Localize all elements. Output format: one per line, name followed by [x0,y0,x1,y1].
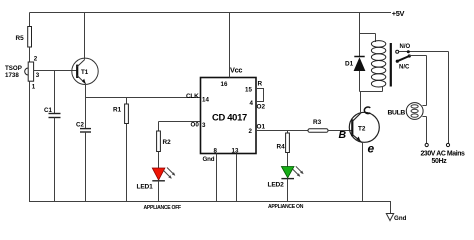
wire O0 pin3 to R2 [159,121,201,123]
svg-text:16: 16 [221,81,228,88]
wire bottom rail to ground [390,201,392,214]
resistor R4 [286,133,290,153]
resistor R1 [125,104,129,124]
svg-text:C1: C1 [44,107,52,114]
wire R4 branch [287,131,289,134]
wire TSOP pin3 output to T1 base [34,70,78,72]
svg-text:15: 15 [245,87,252,94]
wire R2 to LED1 [158,152,160,169]
wire N/O line down to mains terminal right [448,52,450,144]
wire R1 to bottom rail [126,124,128,203]
ground symbol [386,214,393,221]
transistor T2 [349,112,379,142]
resistor R2 [157,131,161,152]
relay core [390,43,392,87]
svg-text:O0: O0 [191,122,200,129]
wire T1 emitter down [85,84,87,129]
wire top junction D1/coil [360,33,376,35]
svg-text:LED2: LED2 [268,182,285,189]
svg-text:Gnd: Gnd [203,156,215,163]
wire O1 pin2 to R3 and T2 base [256,130,308,132]
svg-text:R1: R1 [113,107,122,114]
capacitor C2 [80,128,91,130]
relay coil [375,34,377,43]
LED2 green [281,167,294,178]
wire D1 branch top [359,34,361,57]
svg-text:T2: T2 [358,126,366,133]
wire T2 emitter to bottom rail [362,143,364,202]
IC U1 CD4017 box [201,78,257,154]
transistor T1 [72,58,98,84]
svg-text:R5: R5 [16,35,25,42]
TSOP lens bump [25,68,29,75]
svg-text:13: 13 [232,148,239,155]
svg-text:14: 14 [202,97,209,104]
wire R1 branch [126,98,128,105]
label c script (collector curl) [364,107,370,114]
wire bottom rail [30,201,391,203]
svg-text:N/C: N/C [399,65,410,71]
svg-text:TSOP: TSOP [5,65,22,72]
relay contact N/O [396,50,399,53]
wire D1 to bottom junction [359,71,361,92]
svg-text:CD 4017: CD 4017 [212,112,247,123]
svg-text:BULB: BULB [388,109,406,116]
resistor R3 [308,129,328,133]
wire T2 collector up to relay junction [360,92,362,114]
svg-text:O2: O2 [257,104,266,111]
wire TSOP pin1 to bottom rail [29,81,31,202]
svg-text:B: B [339,129,347,141]
svg-text:T1: T1 [81,69,89,76]
IR receiver TSOP 1738 body [28,62,33,81]
wire N/O to mains right [399,51,449,53]
wire R4 to LED2 [287,153,289,167]
wire bulb top connection [422,105,426,107]
svg-text:2: 2 [34,56,38,63]
svg-text:LED1: LED1 [137,184,154,191]
relay armature lever [397,56,409,61]
wire LED2 to bottom rail [287,179,289,202]
svg-text:R4: R4 [277,144,286,151]
svg-text:1738: 1738 [5,72,19,79]
wire R5 to TSOP pin2 [29,47,31,62]
resistor R5 [28,27,32,48]
wire LED1 to bottom rail [158,181,160,202]
mains terminal left [425,143,428,146]
LED1 red [152,168,165,180]
svg-text:O1: O1 [257,124,266,131]
wire emitter junction to CLK pin14 [86,97,201,99]
wire C1 to bottom rail [54,118,56,203]
wire C2 to bottom rail [85,132,87,201]
wire C1 branch down [54,71,56,114]
svg-text:Vcc: Vcc [230,66,242,75]
svg-text:APPLIANCE OFF: APPLIANCE OFF [144,205,182,211]
wire left column top (rail to R5) [29,13,31,27]
wire pin8 to bottom rail [216,154,218,203]
svg-text:4: 4 [250,100,254,107]
svg-text:C2: C2 [76,122,84,129]
svg-text:N/O: N/O [400,44,411,50]
capacitor C1 [49,113,61,115]
wire Vcc pin16 to +5V rail [229,13,231,78]
svg-text:2: 2 [249,128,253,135]
svg-text:CLK: CLK [186,93,199,100]
svg-text:3: 3 [202,122,206,129]
wire +5V rail down to relay branch [359,13,361,34]
svg-text:APPLIANCE ON: APPLIANCE ON [268,204,304,210]
junction dot on N/O line [407,50,410,53]
svg-text:Gnd: Gnd [394,215,407,222]
svg-text:8: 8 [214,148,218,155]
svg-text:+5V: +5V [392,9,405,18]
wire R3 to T2 base [328,130,352,132]
svg-text:230V AC Mains: 230V AC Mains [421,151,466,158]
wire T1 collector to +5V rail [84,13,86,60]
svg-text:1: 1 [32,84,36,91]
bulb [406,103,423,120]
svg-text:R: R [258,81,263,88]
wire bottom junction D1/coil [360,91,383,93]
svg-text:R2: R2 [163,139,172,146]
svg-text:3: 3 [36,72,40,79]
wire pin15 to pin4 reset loop [256,89,264,102]
wire lever to bulb branch [409,55,426,57]
wire bulb bottom connection [422,116,426,118]
diode D1 [354,56,364,58]
wire pin13 to bottom rail [236,154,238,203]
svg-text:D1: D1 [345,61,354,68]
wire top +5V rail [30,12,392,14]
svg-text:e: e [368,142,375,156]
mains terminal right [446,143,449,146]
svg-text:R3: R3 [313,119,322,126]
svg-text:50Hz: 50Hz [432,158,448,165]
